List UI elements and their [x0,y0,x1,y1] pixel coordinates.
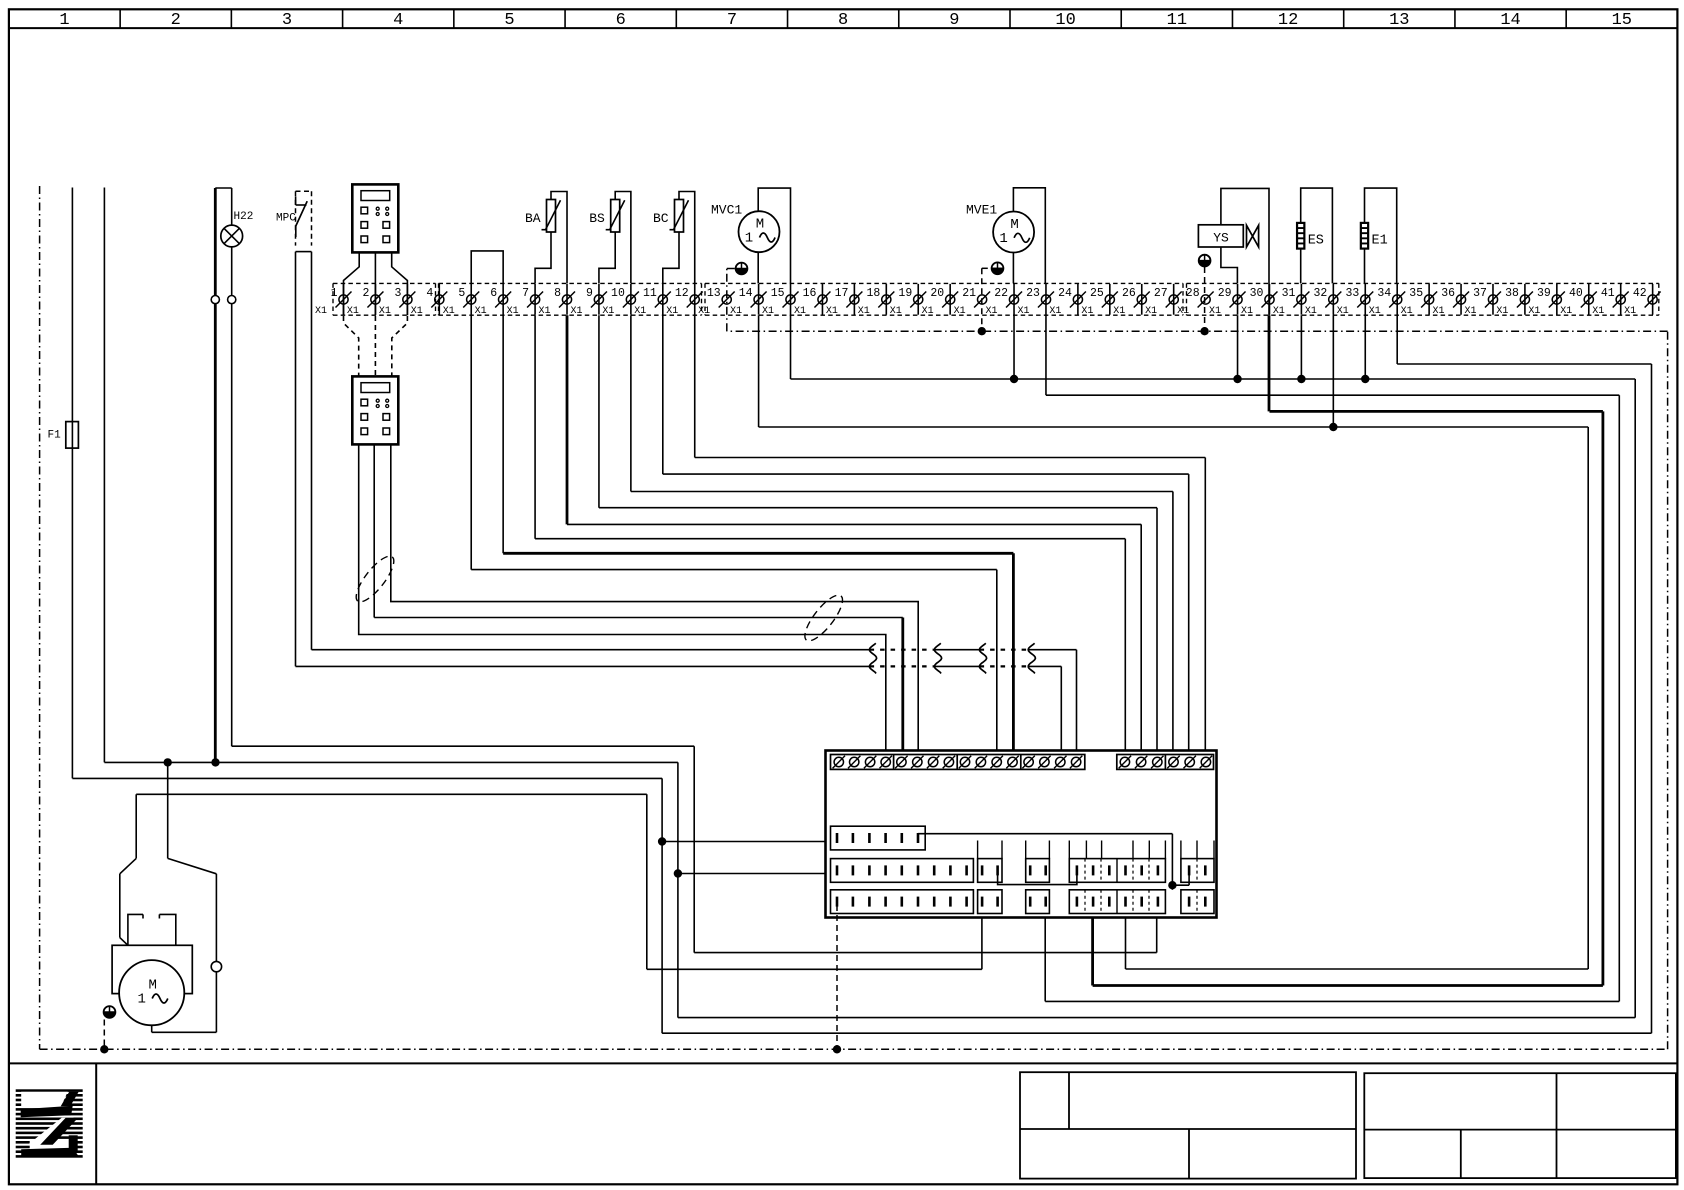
svg-text:X1: X1 [602,306,614,317]
svg-text:9: 9 [586,287,593,300]
svg-text:11: 11 [1167,11,1187,30]
svg-text:10: 10 [611,287,625,300]
svg-text:2: 2 [363,287,370,300]
svg-text:41: 41 [1601,287,1615,300]
svg-text:X1: X1 [730,306,742,317]
svg-text:16: 16 [803,287,817,300]
svg-text:H22: H22 [234,211,254,223]
svg-text:X1: X1 [698,306,710,317]
svg-text:X1: X1 [1464,306,1476,317]
svg-text:6: 6 [616,11,626,30]
svg-text:23: 23 [1026,287,1040,300]
svg-text:X1: X1 [890,306,902,317]
svg-text:X1: X1 [1177,306,1189,317]
svg-text:3: 3 [282,11,292,30]
svg-text:X1: X1 [1369,306,1381,317]
svg-text:28: 28 [1186,287,1200,300]
svg-text:13: 13 [1389,11,1409,30]
svg-text:19: 19 [898,287,912,300]
svg-text:X1: X1 [411,306,423,317]
svg-text:1: 1 [59,11,69,30]
svg-text:27: 27 [1154,287,1168,300]
svg-text:BS: BS [589,211,605,226]
svg-text:37: 37 [1473,287,1487,300]
svg-text:12: 12 [1278,11,1298,30]
svg-text:X1: X1 [1273,306,1285,317]
svg-text:20: 20 [930,287,944,300]
svg-text:X1: X1 [1081,306,1093,317]
svg-text:33: 33 [1345,287,1359,300]
svg-text:40: 40 [1569,287,1583,300]
svg-text:X1: X1 [954,306,966,317]
svg-text:10: 10 [1055,11,1075,30]
svg-text:X1: X1 [1017,306,1029,317]
svg-text:X1: X1 [922,306,934,317]
svg-text:36: 36 [1441,287,1455,300]
svg-text:8: 8 [838,11,848,30]
svg-text:29: 29 [1218,287,1232,300]
svg-text:42: 42 [1633,287,1647,300]
svg-text:X1: X1 [379,306,391,317]
svg-text:X1: X1 [1624,306,1636,317]
svg-text:11: 11 [643,287,657,300]
svg-text:X1: X1 [794,306,806,317]
svg-text:18: 18 [866,287,880,300]
svg-text:X1: X1 [1560,306,1572,317]
svg-text:M: M [1010,217,1018,233]
svg-text:12: 12 [675,287,689,300]
svg-text:39: 39 [1537,287,1551,300]
svg-text:F1: F1 [48,429,62,441]
svg-text:X1: X1 [315,306,327,317]
svg-text:X1: X1 [570,306,582,317]
svg-text:X1: X1 [762,306,774,317]
svg-text:1: 1 [745,231,753,247]
svg-text:1: 1 [999,231,1007,247]
svg-text:X1: X1 [858,306,870,317]
svg-text:ES: ES [1308,233,1324,248]
svg-text:X1: X1 [443,306,455,317]
svg-text:X1: X1 [1241,306,1253,317]
svg-text:7: 7 [522,287,529,300]
svg-text:4: 4 [393,11,403,30]
svg-text:4: 4 [426,287,433,300]
svg-text:25: 25 [1090,287,1104,300]
svg-text:MPC: MPC [276,213,296,225]
svg-text:X1: X1 [986,306,998,317]
svg-text:8: 8 [554,287,561,300]
svg-text:X1: X1 [1528,306,1540,317]
svg-text:X1: X1 [1592,306,1604,317]
svg-text:BA: BA [525,211,541,226]
svg-text:MVC1: MVC1 [711,203,742,218]
svg-text:X1: X1 [347,306,359,317]
svg-text:38: 38 [1505,287,1519,300]
svg-text:7: 7 [727,11,737,30]
svg-text:X1: X1 [539,306,551,317]
svg-text:MVE1: MVE1 [966,203,997,218]
svg-text:X1: X1 [1401,306,1413,317]
svg-text:34: 34 [1377,287,1391,300]
svg-text:21: 21 [962,287,976,300]
svg-text:X1: X1 [1145,306,1157,317]
svg-text:15: 15 [771,287,785,300]
svg-text:15: 15 [1612,11,1632,30]
svg-text:35: 35 [1409,287,1423,300]
svg-text:X1: X1 [1305,306,1317,317]
svg-text:X1: X1 [507,306,519,317]
svg-text:M: M [756,217,764,233]
svg-text:X1: X1 [1337,306,1349,317]
svg-text:14: 14 [739,287,753,300]
svg-text:17: 17 [835,287,849,300]
svg-text:X1: X1 [475,306,487,317]
svg-text:X1: X1 [1433,306,1445,317]
svg-text:24: 24 [1058,287,1072,300]
svg-text:E1: E1 [1372,233,1388,248]
svg-text:YS: YS [1213,231,1229,246]
svg-text:BC: BC [653,211,669,226]
svg-text:30: 30 [1250,287,1264,300]
svg-text:X1: X1 [634,306,646,317]
svg-text:X1: X1 [1209,306,1221,317]
svg-text:3: 3 [394,287,401,300]
svg-text:6: 6 [490,287,497,300]
svg-text:22: 22 [994,287,1008,300]
svg-text:X1: X1 [1496,306,1508,317]
svg-text:X1: X1 [1049,306,1061,317]
svg-text:M: M [148,978,156,994]
svg-text:X1: X1 [666,306,678,317]
svg-text:5: 5 [504,11,514,30]
svg-text:9: 9 [949,11,959,30]
svg-text:26: 26 [1122,287,1136,300]
svg-text:32: 32 [1314,287,1328,300]
svg-text:X1: X1 [1113,306,1125,317]
svg-text:13: 13 [707,287,721,300]
svg-text:14: 14 [1500,11,1520,30]
svg-text:5: 5 [458,287,465,300]
svg-text:31: 31 [1282,287,1296,300]
svg-text:1: 1 [331,287,338,300]
svg-text:1: 1 [137,992,145,1008]
svg-text:2: 2 [171,11,181,30]
svg-text:X1: X1 [826,306,838,317]
